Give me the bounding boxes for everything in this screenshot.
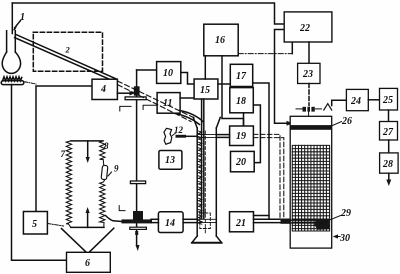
svg-text:19: 19 — [236, 131, 246, 142]
wire dash-dot box16 to under box22 — [238, 53, 292, 55]
label 26 leader — [330, 122, 342, 127]
wire dashed box23 down — [308, 84, 310, 106]
coil header line — [71, 140, 103, 142]
wire box10 to box15 elbow — [181, 73, 194, 85]
coil 8 zigzag upper — [100, 141, 105, 166]
tube diagonal from flask to box 4 (double line) — [15, 34, 117, 79]
column walls — [196, 128, 198, 236]
dashed box 2 — [33, 32, 102, 71]
label 29 leader — [320, 216, 341, 225]
coil down arrow — [87, 141, 89, 158]
node thick black junction at reactor inlet — [281, 219, 291, 224]
box11 left bracket — [143, 105, 157, 109]
flask 1 bulb — [2, 52, 20, 73]
wire needle pair column to box19 — [216, 134, 229, 136]
wire pair chopper to box14 — [151, 218, 158, 220]
svg-text:13: 13 — [165, 155, 175, 166]
svg-text:15: 15 — [200, 85, 210, 96]
chopper lower thick bar — [122, 219, 153, 223]
box 11 — [157, 93, 180, 114]
svg-text:25: 25 — [382, 95, 393, 106]
box 19 — [230, 126, 254, 146]
box 5 — [23, 212, 47, 235]
wire box5 dash-dot to coil — [48, 224, 64, 227]
label 12 leader — [172, 133, 176, 136]
label 9 leader — [108, 172, 112, 176]
heater base — [1, 81, 24, 85]
coil up arrow — [87, 212, 89, 227]
column graduation marks — [198, 131, 202, 224]
svg-text:17: 17 — [236, 71, 247, 82]
chopper needle tip — [136, 245, 140, 251]
box 23 — [298, 63, 320, 83]
item 12 needle — [176, 135, 187, 138]
chopper bottom tick — [135, 231, 138, 235]
box 16 — [204, 24, 238, 56]
svg-text:30: 30 — [339, 233, 350, 244]
reactor black bar — [290, 125, 332, 130]
chopper lower bar2 — [130, 227, 147, 229]
box 13 — [159, 151, 182, 170]
column: mouth flare — [193, 117, 220, 128]
svg-text:18: 18 — [236, 96, 246, 107]
box 22 — [284, 12, 332, 42]
wire heater dash-dot to box5 line — [25, 82, 36, 84]
svg-text:16: 16 — [215, 35, 225, 46]
box 14 — [158, 212, 183, 233]
item 29 blob — [315, 219, 330, 230]
wire box21 right stub to 17-line — [254, 215, 270, 217]
chopper upper bar — [125, 97, 146, 100]
chopper rail vertical — [136, 70, 138, 245]
box 24 — [346, 89, 368, 110]
wire left border bottom to box 6 — [12, 85, 67, 261]
wire needle pair through column — [197, 134, 216, 136]
box 18 — [230, 88, 254, 113]
coil 7 zigzag — [66, 141, 71, 228]
wire box16 to box19 elbow — [222, 56, 244, 126]
item 12 blob — [164, 128, 172, 144]
wire box22 to box23 — [308, 42, 310, 63]
wire box27 to box28 — [388, 140, 390, 153]
wire pair box14 to column — [183, 218, 197, 220]
box 28 — [380, 153, 399, 173]
wire stub box22 bottom to dash-dot — [291, 42, 293, 54]
box 27 — [380, 122, 398, 141]
box 4 — [92, 79, 117, 99]
wire caret to box24 — [332, 100, 347, 105]
thermocouple caret — [324, 104, 332, 110]
svg-text:9: 9 — [114, 164, 119, 174]
chopper mid disc — [130, 181, 145, 184]
wire box4 to box5 line — [36, 86, 92, 212]
dashed light beam (double) from box4 to column mouth — [118, 81, 195, 118]
funnel V to box 6 — [62, 228, 114, 252]
wire box25 to box27 — [388, 110, 390, 122]
wire box11 to box15 — [180, 97, 194, 99]
svg-text:26: 26 — [341, 116, 352, 127]
arrow below box28 — [388, 173, 390, 180]
wire pair inside mesh to item29 — [290, 219, 317, 221]
heater zigzag — [3, 77, 22, 81]
box 10 — [157, 62, 181, 84]
wire box16 to box15 — [204, 56, 206, 79]
wire box18 right elbow to box20 — [253, 105, 260, 163]
box 15 — [194, 79, 218, 99]
svg-text:5: 5 — [32, 219, 37, 230]
wire top border — [12, 3, 284, 24]
node arrow into reactor top — [287, 121, 293, 126]
wire box17 right elbow down to pair — [253, 83, 269, 219]
svg-text:10: 10 — [163, 68, 173, 79]
wire box24 to box25 — [368, 99, 379, 101]
svg-text:7: 7 — [61, 149, 66, 159]
coil 8 zigzag lower — [100, 180, 105, 228]
column inner dashed box — [200, 213, 211, 229]
wire box15 to box17 — [218, 83, 230, 85]
shutter component striped — [303, 107, 315, 112]
chopper lower knob — [133, 211, 143, 222]
svg-text:6: 6 — [85, 258, 90, 269]
box 17 — [230, 64, 252, 86]
wire pair through column — [197, 218, 216, 220]
svg-text:27: 27 — [382, 127, 394, 138]
arrow box4 to chopper — [117, 92, 130, 94]
svg-text:29: 29 — [340, 208, 351, 219]
wire box18 to box19 — [243, 113, 245, 126]
svg-text:11: 11 — [163, 98, 172, 109]
svg-text:20: 20 — [235, 157, 246, 168]
box 21 — [230, 212, 254, 232]
wire box15 down pair into column — [201, 99, 203, 219]
chopper upper hook — [120, 106, 131, 111]
column foot — [192, 236, 222, 243]
svg-text:8: 8 — [104, 141, 109, 151]
coil U bottom — [71, 226, 104, 228]
svg-text:4: 4 — [100, 84, 106, 95]
wire coil8 to chopper bar s-curve — [106, 216, 122, 222]
item 9 cartridge — [101, 165, 108, 179]
box 6 — [67, 252, 111, 272]
reactor 26 outer — [290, 116, 332, 248]
svg-text:2: 2 — [65, 45, 71, 55]
wire border to box22 lower stub — [275, 30, 288, 124]
svg-text:23: 23 — [302, 69, 313, 80]
flask 1 neck — [7, 31, 16, 52]
svg-text:24: 24 — [350, 96, 361, 107]
shutter side dashes — [296, 108, 302, 110]
svg-text:22: 22 — [299, 23, 310, 34]
svg-text:14: 14 — [165, 218, 175, 229]
chopper upper knob — [134, 86, 140, 95]
chopper lower hook — [119, 206, 125, 211]
svg-text:1: 1 — [20, 12, 25, 23]
label 1 leader — [15, 21, 21, 29]
reactor mesh — [292, 145, 329, 231]
wire dashed pair box19 to reactor side — [253, 134, 280, 219]
svg-text:12: 12 — [174, 125, 184, 135]
pipe curve box11 to column mouth — [174, 113, 200, 124]
box 20 — [231, 151, 255, 171]
box 25 — [380, 88, 398, 110]
wire box10 to chopper elbow — [137, 69, 157, 71]
label 30 leader arrow — [335, 236, 341, 238]
svg-text:21: 21 — [235, 218, 246, 229]
wire pair box21 to reactor — [254, 218, 291, 220]
wire left border top to flask neck — [11, 3, 13, 34]
column centerline dashed — [204, 131, 206, 234]
svg-text:28: 28 — [382, 159, 393, 170]
